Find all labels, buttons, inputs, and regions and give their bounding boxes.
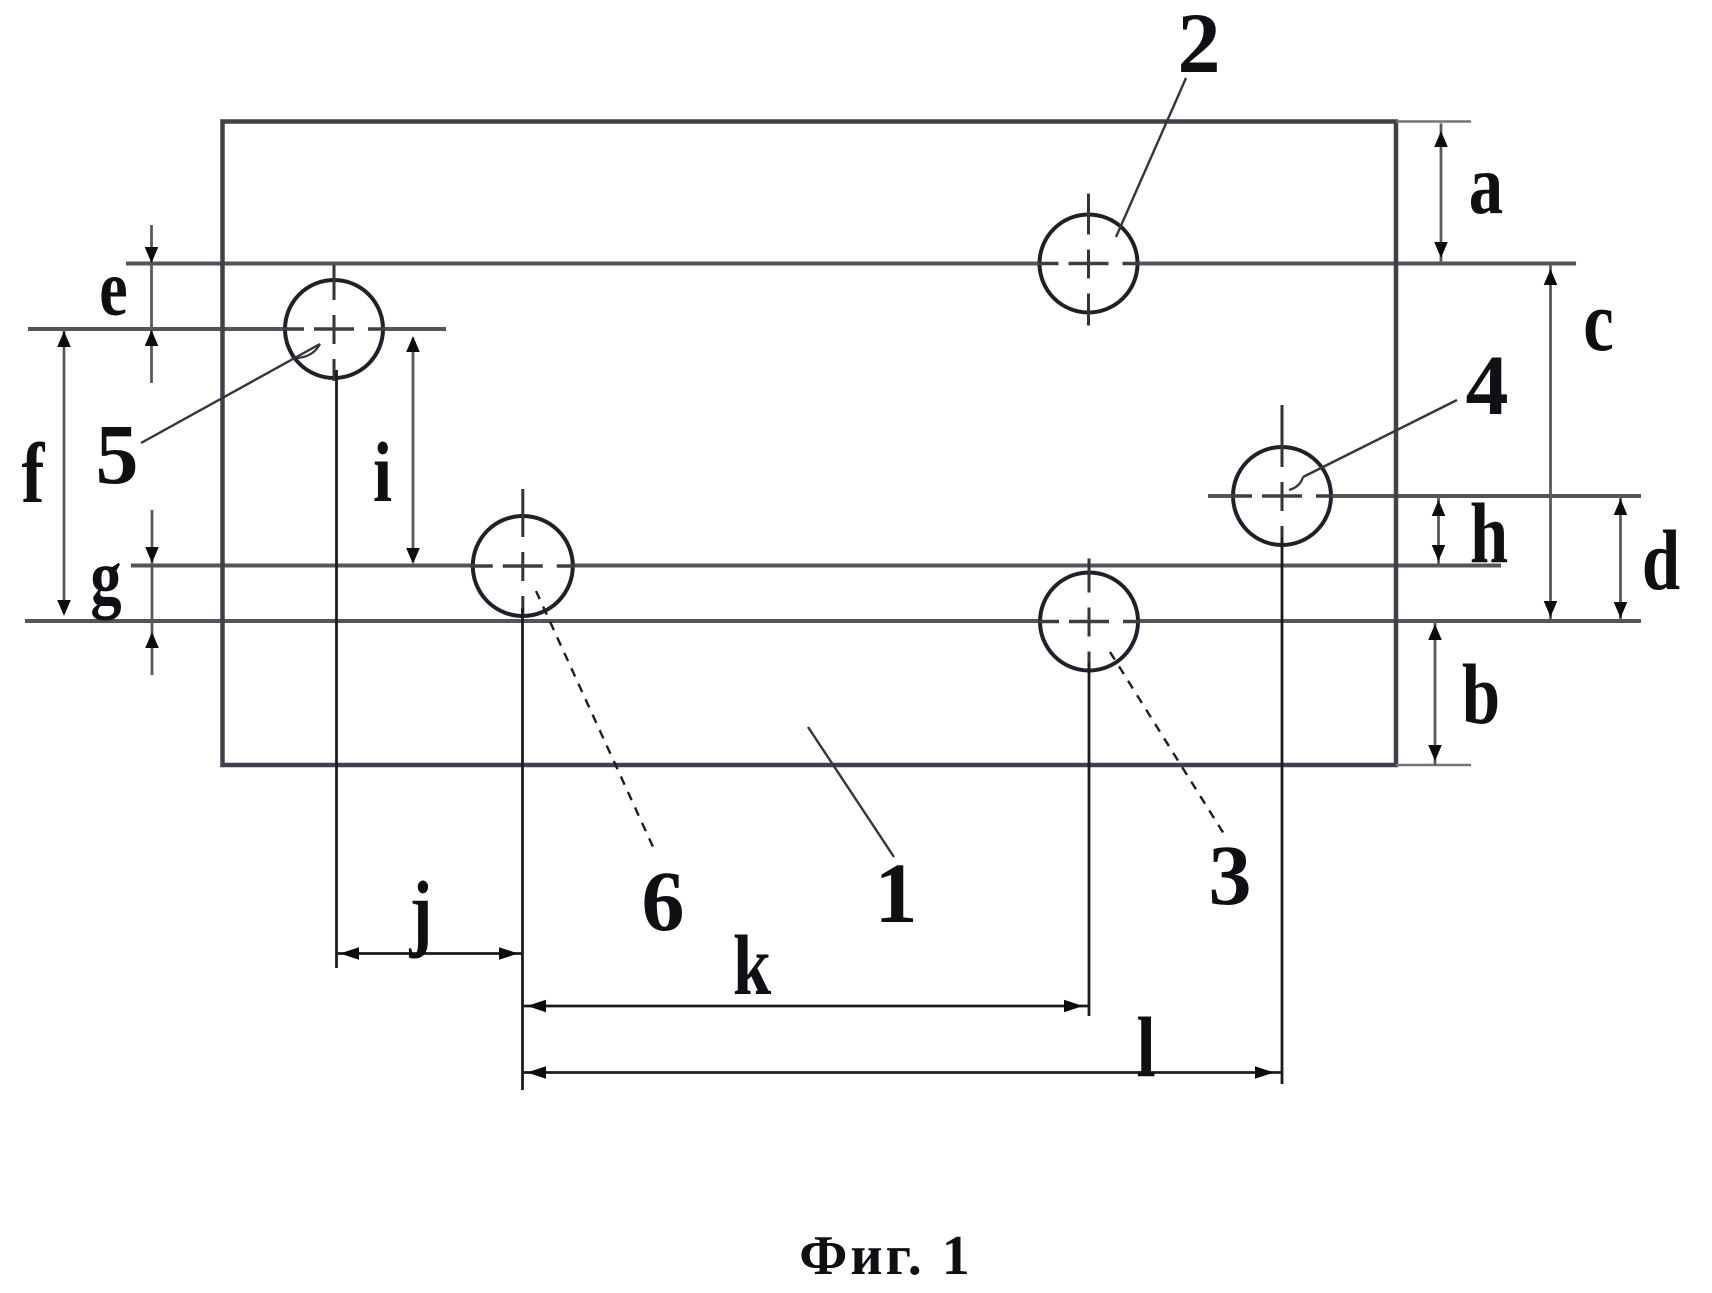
svg-text:j: j (409, 864, 433, 959)
svg-text:d: d (1642, 513, 1680, 608)
centerline through hole 5 (28, 327, 446, 331)
svg-text:3: 3 (1209, 827, 1252, 923)
dimension c line (1549, 265, 1552, 620)
hole 2 (1038, 194, 1140, 326)
dimension f line (63, 329, 66, 612)
dimension k line (523, 1005, 1090, 1008)
dimension a line (1440, 124, 1443, 263)
svg-text:2: 2 (1178, 0, 1221, 91)
svg-text:4: 4 (1466, 337, 1509, 433)
hole 5 (283, 265, 385, 381)
plate outline 1 (223, 122, 1397, 766)
svg-text:e: e (99, 243, 127, 332)
leader for 5 (141, 344, 320, 443)
svg-text:i: i (373, 425, 392, 520)
extension line below hole 4 (1281, 537, 1284, 1084)
svg-text:h: h (1470, 486, 1508, 581)
dimension h line (1437, 496, 1440, 565)
hole 6 (471, 489, 575, 618)
dimension e line (150, 225, 153, 383)
extension line below hole 6 (521, 608, 524, 1090)
svg-text:6: 6 (642, 853, 685, 949)
leader for 4 (1303, 400, 1457, 477)
dimension d line (1619, 496, 1622, 621)
leader for 2 (1116, 78, 1186, 237)
svg-text:5: 5 (96, 406, 139, 502)
svg-text:c: c (1583, 274, 1614, 369)
dimension b line (1434, 621, 1437, 765)
leader for 3 (dashed) (1110, 652, 1224, 834)
svg-text:f: f (22, 426, 46, 521)
svg-text:b: b (1462, 647, 1500, 742)
svg-text:l: l (1136, 1000, 1155, 1095)
dimension i line (412, 338, 415, 562)
svg-text:a: a (1469, 137, 1503, 232)
centerline through hole 2 (126, 262, 1576, 266)
svg-text:1: 1 (875, 845, 918, 941)
centerline through hole 4 (1208, 494, 1641, 498)
leader for 1 (808, 727, 894, 857)
leader for 6 (dashed) (536, 591, 654, 849)
extension line below hole 5 (335, 370, 338, 968)
hole 4 (1231, 405, 1333, 548)
dimension g line (151, 510, 154, 675)
svg-text:g: g (90, 535, 121, 621)
top edge extension (1396, 120, 1471, 123)
centerline through hole 3 (25, 619, 1641, 623)
bottom edge extension (1396, 764, 1471, 767)
extension line below hole 3 (1088, 662, 1091, 1016)
hole 3 (1038, 559, 1140, 674)
svg-text:Фиг. 1: Фиг. 1 (799, 1225, 972, 1287)
dimension l line (523, 1071, 1283, 1074)
dimension j line (337, 952, 523, 955)
centerline through hole 6 (131, 564, 1501, 568)
svg-text:k: k (733, 918, 772, 1013)
